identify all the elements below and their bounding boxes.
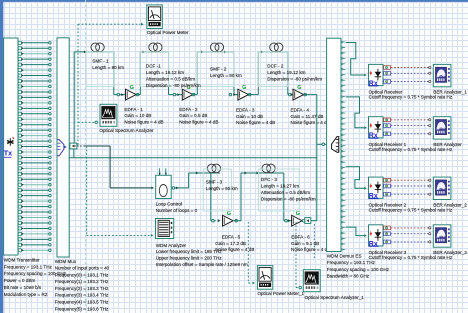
svg-text:Gain = 10 dB: Gain = 10 dB: [236, 114, 263, 119]
svg-text:EDFA - 1: EDFA - 1: [124, 107, 143, 112]
svg-text:WDM Analyzer: WDM Analyzer: [156, 243, 187, 248]
svg-text:Bandwidth = 80 GHz: Bandwidth = 80 GHz: [327, 273, 370, 278]
svg-text:EDFA - 3: EDFA - 3: [236, 107, 255, 112]
svg-text:Dispersion = -80 ps/nm/km: Dispersion = -80 ps/nm/km: [267, 76, 322, 81]
svg-text:Cutoff frequency = 0.75 * Symb: Cutoff frequency = 0.75 * Symbol rate Hz: [369, 255, 453, 260]
svg-text:Optical Spectrum Analyzer_1: Optical Spectrum Analyzer_1: [305, 295, 365, 300]
svg-text:Gain = 11.47 dB: Gain = 11.47 dB: [291, 114, 324, 119]
svg-text:Upper frequency limit = 200 T: Upper frequency limit = 200 THz: [156, 256, 223, 261]
svg-text:G: G: [296, 211, 300, 217]
svg-text:Modulation type = RZ: Modulation type = RZ: [4, 292, 48, 297]
svg-text:Bit rate = 10e9 b/s: Bit rate = 10e9 b/s: [4, 285, 42, 290]
svg-text:SMF - 2: SMF - 2: [210, 67, 227, 72]
svg-text:Attenuation = 0.5 dB/km: Attenuation = 0.5 dB/km: [261, 190, 310, 195]
svg-text:Interpolation offset = Sample: Interpolation offset = Sample rate / 125…: [156, 262, 248, 267]
svg-text:BER Analyzer_2: BER Analyzer_2: [433, 202, 467, 207]
svg-text:EDFA - 4: EDFA - 4: [291, 107, 310, 112]
svg-text:Optical Power Meter_1: Optical Power Meter_1: [257, 291, 304, 296]
svg-text:BER Analyzer_1: BER Analyzer_1: [433, 90, 467, 95]
svg-text:Gain = 0.5 dB: Gain = 0.5 dB: [179, 113, 207, 118]
svg-text:Frequency(2) = 193.3 THz: Frequency(2) = 193.3 THz: [55, 286, 109, 291]
svg-text:Noise figure = 4 dB: Noise figure = 4 dB: [291, 247, 330, 252]
svg-text:WDM Demux ES: WDM Demux ES: [327, 254, 362, 259]
svg-text:Cutoff frequency = 0.75 * Symb: Cutoff frequency = 0.75 * Symbol rate Hz: [369, 95, 453, 100]
svg-text:Frequency(4) = 193.5 THz: Frequency(4) = 193.5 THz: [55, 299, 109, 304]
svg-text:Lower frequency limit = 185 T: Lower frequency limit = 185 THz: [156, 249, 223, 254]
svg-text:Length = 90 km: Length = 90 km: [92, 65, 124, 70]
svg-text:WDM Mux: WDM Mux: [55, 259, 77, 264]
svg-text:Frequency spacing = 100 GHz: Frequency spacing = 100 GHz: [327, 267, 390, 272]
svg-text:Noise figure = 4 dB: Noise figure = 4 dB: [124, 120, 163, 125]
svg-text:Gain = 17.2 dB: Gain = 17.2 dB: [215, 241, 246, 246]
svg-text:Length = 19.27 km: Length = 19.27 km: [261, 184, 299, 189]
svg-text:Gain = 9.1 dB: Gain = 9.1 dB: [291, 241, 319, 246]
svg-text:Attenuation = 0.5 dB/km: Attenuation = 0.5 dB/km: [146, 76, 195, 81]
svg-text:G: G: [227, 211, 231, 217]
svg-text:Frequency = 193.1 THz: Frequency = 193.1 THz: [327, 260, 376, 265]
svg-text:Dispersion = -80 ps/nm/km: Dispersion = -80 ps/nm/km: [146, 83, 201, 88]
svg-text:DFC - 3: DFC - 3: [261, 177, 278, 182]
svg-text:G: G: [130, 85, 134, 91]
svg-text:Dispersion = -80 ps/nm/km: Dispersion = -80 ps/nm/km: [261, 196, 316, 201]
svg-text:Cutoff frequency = 0.75 * Symb: Cutoff frequency = 0.75 * Symbol rate Hz: [369, 207, 453, 212]
svg-text:Gain = 10 dB: Gain = 10 dB: [124, 113, 151, 118]
svg-text:WDM Transmitter: WDM Transmitter: [4, 257, 40, 262]
svg-text:Frequency(0) = 193.1 THz: Frequency(0) = 193.1 THz: [55, 272, 109, 277]
svg-text:BER Analyzer_3: BER Analyzer_3: [433, 250, 467, 255]
svg-text:Power = 0 dBm: Power = 0 dBm: [4, 278, 36, 283]
svg-text:Loop Control: Loop Control: [156, 202, 182, 207]
svg-text:Number of input ports = 40: Number of input ports = 40: [55, 266, 110, 271]
svg-text:EDFA - 6: EDFA - 6: [291, 234, 310, 239]
svg-text:DCF - 2: DCF - 2: [267, 64, 284, 69]
svg-text:Number of loops = 0: Number of loops = 0: [156, 208, 198, 213]
svg-text:SMF - 3: SMF - 3: [206, 179, 223, 184]
svg-text:BER Analyzer: BER Analyzer: [433, 142, 462, 147]
svg-text:Frequency = 193.1 THz: Frequency = 193.1 THz: [4, 264, 53, 269]
svg-text:G: G: [297, 85, 301, 91]
svg-text:Optical Spectrum Analyzer: Optical Spectrum Analyzer: [99, 128, 154, 133]
svg-text:Noise figure = 4 dB: Noise figure = 4 dB: [291, 120, 330, 125]
svg-text:Length = 19.12 km: Length = 19.12 km: [267, 70, 305, 75]
svg-text:SMF - 1: SMF - 1: [92, 59, 109, 64]
svg-text:G: G: [242, 85, 246, 91]
svg-text:Cutoff frequency = 0.75 * Symb: Cutoff frequency = 0.75 * Symbol rate Hz: [369, 147, 453, 152]
svg-text:Optical Power Meter: Optical Power Meter: [147, 30, 189, 35]
svg-text:Frequency(5) = 193.6 THz: Frequency(5) = 193.6 THz: [55, 306, 109, 311]
svg-text:Noise figure = 4 dB: Noise figure = 4 dB: [236, 120, 275, 125]
svg-text:Length = 95 km: Length = 95 km: [206, 186, 238, 191]
svg-text:Frequency(1) = 193.2 THz: Frequency(1) = 193.2 THz: [55, 279, 109, 284]
svg-text:Noise figure = 4 dB: Noise figure = 4 dB: [179, 120, 218, 125]
svg-text:Length = 19.12 km: Length = 19.12 km: [146, 70, 184, 75]
svg-text:Frequency(3) = 193.4 THz: Frequency(3) = 193.4 THz: [55, 293, 109, 298]
svg-text:Length = 90 km: Length = 90 km: [210, 73, 242, 78]
svg-text:EDFA - 2: EDFA - 2: [179, 107, 198, 112]
svg-text:EDFA - 5: EDFA - 5: [222, 234, 241, 239]
svg-text:Noise figure = 4 dB: Noise figure = 4 dB: [215, 247, 254, 252]
svg-text:Tx: Tx: [4, 149, 12, 158]
svg-text:DCF -1: DCF -1: [146, 64, 161, 69]
